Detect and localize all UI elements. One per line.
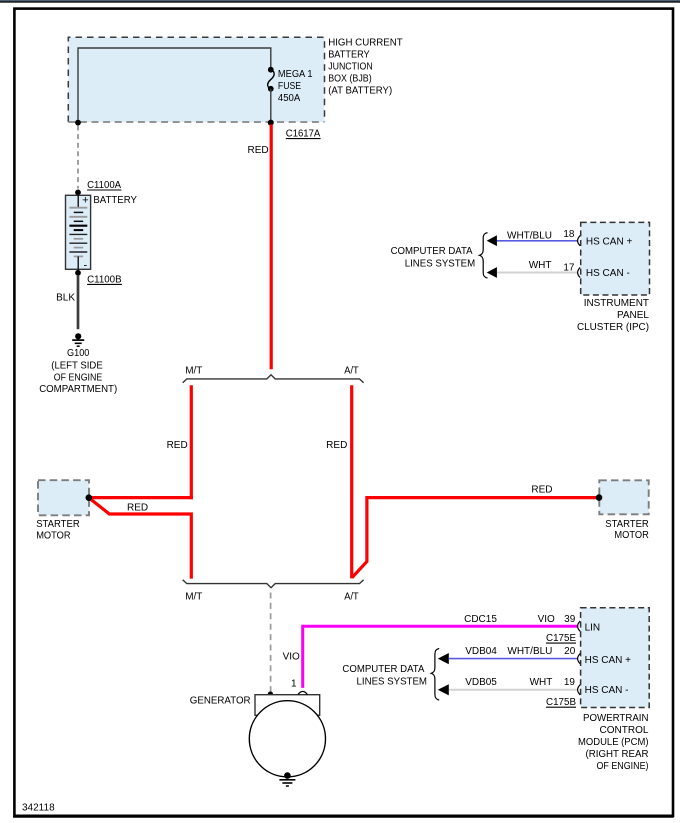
svg-text:RED: RED bbox=[326, 440, 347, 451]
svg-text:C175E: C175E bbox=[546, 633, 576, 644]
instrument panel cluster (IPC) box bbox=[581, 222, 650, 295]
svg-text:RED: RED bbox=[167, 440, 188, 451]
svg-text:VIO: VIO bbox=[283, 651, 300, 662]
node C1100A bbox=[75, 180, 121, 195]
wire WHT/BLU: IPC pin 18 HS CAN + bbox=[497, 230, 578, 241]
svg-text:OF ENGINE): OF ENGINE) bbox=[597, 761, 649, 772]
wire BLK: battery to ground G100 bbox=[56, 276, 78, 330]
node C175E bbox=[546, 633, 576, 644]
svg-text:HS CAN -: HS CAN - bbox=[586, 268, 630, 279]
svg-text:CLUSTER (IPC): CLUSTER (IPC) bbox=[577, 322, 649, 333]
svg-text:+: + bbox=[82, 195, 88, 207]
svg-text:1: 1 bbox=[291, 679, 297, 690]
svg-text:POWERTRAIN: POWERTRAIN bbox=[583, 713, 649, 724]
wire RED: A/T branch down to bottom A/T brace bbox=[326, 385, 352, 578]
wire: BJB internal bus bbox=[78, 48, 271, 123]
svg-text:BLK: BLK bbox=[56, 292, 75, 303]
arrowhead: PCM HS CAN + to data bus bbox=[438, 653, 449, 664]
node C1100B bbox=[75, 270, 122, 286]
svg-text:342118: 342118 bbox=[22, 803, 55, 814]
svg-text:WHT/BLU: WHT/BLU bbox=[507, 646, 552, 657]
svg-text:VDB05: VDB05 bbox=[465, 677, 497, 688]
pin 18 bbox=[563, 229, 580, 246]
svg-text:HS CAN +: HS CAN + bbox=[586, 237, 633, 248]
svg-text:C1617A: C1617A bbox=[286, 129, 321, 140]
svg-text:LINES SYSTEM: LINES SYSTEM bbox=[357, 676, 428, 687]
high current battery junction box (BJB) bbox=[68, 37, 324, 122]
svg-text:HS CAN +: HS CAN + bbox=[585, 655, 632, 666]
svg-text:HS CAN -: HS CAN - bbox=[585, 685, 629, 696]
svg-text:M/T: M/T bbox=[185, 591, 202, 602]
option brace bottom: M/T - A/T merge bbox=[183, 580, 364, 603]
svg-text:A/T: A/T bbox=[344, 366, 359, 377]
node C175B bbox=[546, 697, 576, 708]
svg-text:18: 18 bbox=[563, 229, 575, 240]
battery bbox=[66, 195, 91, 272]
svg-text:COMPUTER DATA: COMPUTER DATA bbox=[391, 246, 473, 257]
svg-text:BATTERY: BATTERY bbox=[93, 195, 137, 206]
svg-text:RED: RED bbox=[531, 485, 552, 496]
svg-text:(LEFT SIDE: (LEFT SIDE bbox=[51, 361, 103, 372]
svg-text:STARTER: STARTER bbox=[605, 519, 649, 530]
svg-text:LINES SYSTEM: LINES SYSTEM bbox=[405, 259, 476, 270]
svg-text:COMPARTMENT): COMPARTMENT) bbox=[39, 384, 117, 395]
svg-text:MODULE (PCM): MODULE (PCM) bbox=[578, 737, 649, 748]
svg-text:LIN: LIN bbox=[585, 623, 601, 634]
svg-text:MOTOR: MOTOR bbox=[614, 530, 648, 541]
svg-text:OF ENGINE: OF ENGINE bbox=[54, 372, 103, 383]
svg-text:20: 20 bbox=[564, 646, 576, 657]
svg-text:(AT BATTERY): (AT BATTERY) bbox=[328, 86, 392, 97]
svg-text:C1100A: C1100A bbox=[87, 180, 121, 191]
svg-text:MOTOR: MOTOR bbox=[36, 530, 70, 541]
svg-text:PANEL: PANEL bbox=[617, 310, 649, 321]
svg-text:RED: RED bbox=[247, 145, 268, 156]
pin 19 bbox=[564, 677, 580, 695]
wire RED: fuse C1617A down to M/T-A/T split bbox=[247, 125, 271, 370]
svg-text:VDB04: VDB04 bbox=[465, 646, 497, 657]
label: INSTRUMENT PANEL CLUSTER (IPC) bbox=[577, 298, 649, 333]
svg-text:C1100B: C1100B bbox=[87, 274, 122, 285]
svg-text:VIO: VIO bbox=[538, 614, 555, 625]
pin 20 bbox=[564, 646, 580, 664]
option brace top: M/T - A/T split bbox=[183, 366, 364, 383]
powertrain control module (PCM) box bbox=[581, 608, 650, 708]
wire: dashed BJB to battery bbox=[77, 126, 79, 189]
label: HIGH CURRENT BATTERY JUNCTION BOX (BJB) (AT BATTERY) bbox=[328, 37, 403, 96]
svg-text:A/T: A/T bbox=[344, 591, 359, 602]
generator bbox=[190, 695, 326, 777]
svg-text:(RIGHT REAR: (RIGHT REAR bbox=[586, 749, 649, 760]
svg-text:CONTROL: CONTROL bbox=[600, 725, 649, 736]
wire WHT: PCM pin 19 HS CAN -, circuit VDB05 bbox=[449, 677, 577, 690]
svg-text:19: 19 bbox=[564, 677, 576, 688]
wire: dashed bottom brace to generator bbox=[268, 593, 273, 697]
brace: computer data lines system (IPC) bbox=[391, 233, 488, 278]
svg-text:STARTER: STARTER bbox=[36, 519, 79, 530]
svg-text:450A: 450A bbox=[278, 93, 301, 104]
ground at generator bbox=[279, 772, 295, 786]
pin 1 (generator) bbox=[291, 679, 308, 695]
svg-text:WHT: WHT bbox=[530, 677, 553, 688]
svg-text:JUNCTION: JUNCTION bbox=[328, 62, 373, 73]
svg-text:WHT/BLU: WHT/BLU bbox=[507, 230, 552, 241]
svg-text:COMPUTER DATA: COMPUTER DATA bbox=[342, 664, 424, 675]
svg-text:HIGH CURRENT: HIGH CURRENT bbox=[328, 37, 403, 48]
starter motor (right) bbox=[596, 480, 649, 541]
svg-text:17: 17 bbox=[563, 263, 575, 274]
arrowhead: HS CAN + to data bus bbox=[487, 235, 497, 246]
svg-text:M/T: M/T bbox=[185, 366, 202, 377]
svg-text:CDC15: CDC15 bbox=[464, 614, 497, 625]
label: MEGA 1 FUSE 450A bbox=[278, 69, 313, 104]
svg-text:FUSE: FUSE bbox=[278, 81, 301, 92]
svg-text:RED: RED bbox=[127, 503, 148, 514]
pin 17 bbox=[563, 263, 580, 278]
svg-text:WHT: WHT bbox=[529, 260, 552, 271]
wire VIO: generator pin 1 to PCM LIN pin 39, circuit CDC15 bbox=[283, 614, 578, 688]
starter motor (left) bbox=[36, 480, 92, 541]
label: BATTERY bbox=[93, 195, 137, 206]
fuse MEGA 1 450A bbox=[268, 67, 275, 123]
svg-text:BOX (BJB): BOX (BJB) bbox=[328, 74, 372, 85]
wire WHT: IPC pin 17 HS CAN - bbox=[497, 260, 578, 273]
svg-text:INSTRUMENT: INSTRUMENT bbox=[584, 298, 649, 309]
pin 39 bbox=[564, 614, 580, 631]
ground G100 bbox=[39, 333, 117, 395]
wire RED: M/T branch down to starter motor junction bbox=[89, 385, 193, 499]
svg-text:-: - bbox=[83, 260, 87, 272]
wire RED: starter motor junction to bottom M/T brace bbox=[89, 498, 192, 579]
svg-text:39: 39 bbox=[564, 614, 576, 625]
wire RED: A/T junction to right starter motor bbox=[352, 485, 599, 578]
arrowhead: PCM HS CAN - to data bus bbox=[438, 684, 449, 695]
svg-text:BATTERY: BATTERY bbox=[328, 50, 370, 61]
node C1617A bbox=[268, 120, 321, 140]
brace: computer data lines system (PCM) bbox=[342, 649, 439, 701]
wire WHT/BLU: PCM pin 20 HS CAN +, circuit VDB04 bbox=[449, 646, 577, 659]
svg-text:GENERATOR: GENERATOR bbox=[190, 696, 251, 707]
node: BJB left junction bbox=[75, 120, 81, 126]
svg-text:MEGA 1: MEGA 1 bbox=[278, 69, 313, 80]
svg-text:G100: G100 bbox=[67, 348, 90, 359]
arrowhead: HS CAN - to data bus bbox=[487, 267, 497, 278]
label: POWERTRAIN CONTROL MODULE (PCM) (RIGHT REAR OF ENGINE) bbox=[578, 713, 649, 772]
svg-text:C175B: C175B bbox=[546, 697, 576, 708]
diagram number 342118 bbox=[22, 803, 55, 814]
